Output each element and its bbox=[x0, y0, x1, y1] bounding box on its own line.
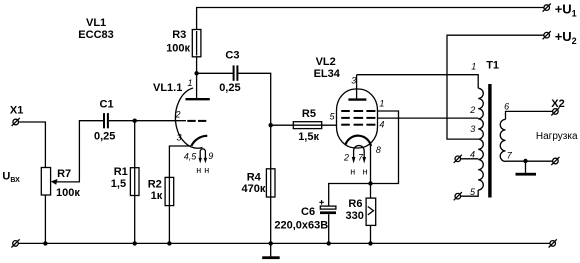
pentode VL2 grid g1 bbox=[341, 124, 375, 126]
label VL2 bbox=[314, 56, 341, 80]
wire anode VL1.1 bbox=[196, 73, 198, 98]
pin 2 VL1.1 bbox=[175, 110, 181, 120]
svg-text:R2: R2 bbox=[148, 178, 162, 190]
svg-text:330: 330 bbox=[346, 210, 364, 222]
node rail R1 bbox=[133, 241, 137, 245]
svg-text:R1: R1 bbox=[114, 166, 128, 178]
svg-text:1,5к: 1,5к bbox=[298, 131, 319, 143]
pentode VL2 anode bbox=[348, 75, 366, 100]
svg-text:T1: T1 bbox=[486, 60, 499, 72]
pentode VL2 envelope bbox=[337, 89, 378, 148]
wire C1 to grid VL1.1 bbox=[109, 120, 186, 122]
svg-text:6: 6 bbox=[504, 102, 509, 112]
label R2 bbox=[148, 178, 163, 202]
svg-text:3: 3 bbox=[177, 133, 182, 143]
heater n VL1.1 bbox=[196, 165, 209, 175]
svg-text:н: н bbox=[204, 165, 209, 175]
pin 4 VL2 bbox=[379, 120, 384, 130]
terminal bottom left bbox=[11, 239, 19, 247]
ground secondary bbox=[516, 161, 537, 176]
heater n VL2 bbox=[350, 166, 367, 176]
svg-text:R6: R6 bbox=[348, 198, 362, 210]
pin 3 VL1.1 bbox=[177, 133, 182, 143]
triode VL1.1 cathode bbox=[191, 136, 207, 146]
label C1 bbox=[94, 99, 115, 143]
terminal pin5 bbox=[454, 192, 462, 200]
pin 8 VL2 bbox=[376, 145, 381, 155]
svg-text:1: 1 bbox=[379, 98, 384, 108]
svg-text:н: н bbox=[196, 165, 201, 175]
resistor R2 bbox=[165, 146, 191, 243]
svg-text:н: н bbox=[350, 166, 355, 176]
wire bottom ground rail bbox=[18, 242, 550, 244]
resistor R3 bbox=[192, 30, 201, 74]
wire cathode node to C6 bbox=[329, 184, 371, 207]
svg-text:0,25: 0,25 bbox=[219, 82, 240, 94]
triode VL1.1 envelope bbox=[175, 88, 202, 148]
wire X1 to R7 bbox=[19, 122, 46, 168]
pentode VL2 heater bbox=[352, 146, 366, 164]
pin 1 T1 bbox=[471, 62, 476, 72]
pin 5 T1 bbox=[470, 187, 476, 197]
svg-text:R5: R5 bbox=[302, 108, 316, 120]
resistor R4 bbox=[266, 125, 275, 243]
label R4 bbox=[242, 171, 266, 195]
wire T1 pin5 bbox=[461, 190, 479, 196]
svg-text:Нагрузка: Нагрузка bbox=[536, 131, 578, 142]
node anode VL1.1 junction bbox=[194, 71, 198, 75]
svg-text:R3: R3 bbox=[172, 29, 186, 41]
resistor R5 bbox=[271, 122, 337, 129]
svg-text:100к: 100к bbox=[56, 187, 80, 199]
wire T1 tap4 bbox=[461, 158, 479, 160]
svg-text:VL1.1: VL1.1 bbox=[153, 82, 182, 94]
svg-text:0,25: 0,25 bbox=[94, 131, 115, 143]
svg-text:4,5: 4,5 bbox=[184, 151, 198, 161]
svg-text:3: 3 bbox=[351, 76, 356, 86]
wire anode VL2 to T1 pin1 bbox=[357, 75, 479, 89]
label R1 bbox=[111, 166, 128, 190]
node rail C6 bbox=[327, 241, 331, 245]
pin 3 VL2 bbox=[351, 76, 356, 86]
label X2 bbox=[551, 98, 564, 110]
label R3 bbox=[166, 29, 190, 55]
svg-text:1,5: 1,5 bbox=[111, 178, 126, 190]
svg-text:470к: 470к bbox=[242, 183, 266, 195]
capacitor C1 bbox=[104, 113, 108, 128]
svg-text:X1: X1 bbox=[10, 105, 23, 117]
wire +U2 feed to tap 3 bbox=[447, 35, 544, 139]
pentode VL2 grid g3 bbox=[341, 110, 375, 112]
label R5 bbox=[298, 108, 319, 143]
terminal tap4 bbox=[454, 155, 462, 163]
resistor R1 bbox=[130, 121, 139, 244]
svg-text:220,0х63В: 220,0х63В bbox=[274, 219, 328, 231]
node B bbox=[269, 123, 273, 127]
terminal +U1 bbox=[543, 4, 551, 12]
pin 7 T1 bbox=[507, 151, 513, 161]
svg-text:R4: R4 bbox=[247, 171, 262, 183]
pin 9 VL1.1 bbox=[208, 151, 213, 161]
node rail R2 bbox=[167, 241, 171, 245]
svg-text:2: 2 bbox=[175, 110, 181, 120]
triode VL1.1 heater bbox=[199, 149, 208, 164]
potentiometer R7 bbox=[41, 168, 57, 244]
pin 4 T1 bbox=[470, 150, 475, 160]
svg-text:2: 2 bbox=[469, 105, 475, 115]
svg-text:VL2: VL2 bbox=[316, 56, 336, 68]
pentode VL2 grid g2 bbox=[341, 117, 375, 119]
svg-text:8: 8 bbox=[376, 145, 381, 155]
pin 1 VL2 bbox=[379, 98, 384, 108]
pin 5 VL2 bbox=[330, 112, 336, 122]
label Uвх bbox=[2, 171, 20, 185]
node secondary ground bbox=[523, 159, 527, 163]
pin 3 T1 bbox=[470, 124, 475, 134]
svg-text:4: 4 bbox=[470, 150, 475, 160]
resistor R6 bbox=[366, 198, 376, 225]
svg-text:X2: X2 bbox=[551, 98, 564, 110]
svg-text:EL34: EL34 bbox=[314, 68, 341, 80]
terminal load bbox=[551, 157, 559, 165]
label +U1 bbox=[555, 1, 577, 18]
pin 4,5 VL1.1 bbox=[184, 151, 198, 161]
node rail R4 bbox=[269, 241, 273, 245]
wire C3 to node B bbox=[238, 73, 271, 125]
pin 1 VL1.1 bbox=[188, 78, 193, 88]
label T1 bbox=[486, 60, 499, 72]
node R1 top bbox=[133, 119, 137, 123]
terminal +U2 bbox=[543, 31, 551, 39]
wire g2 pin4 to T1 tap2 bbox=[378, 117, 479, 119]
svg-text:VL1: VL1 bbox=[86, 17, 106, 29]
terminal X2 bbox=[551, 107, 559, 115]
svg-text:1: 1 bbox=[188, 78, 193, 88]
label R6 bbox=[346, 198, 364, 222]
svg-text:1: 1 bbox=[471, 62, 476, 72]
node cathode VL2 bbox=[368, 181, 372, 185]
terminal X1 bbox=[12, 118, 20, 126]
capacitor C6 bbox=[319, 200, 336, 243]
svg-text:2: 2 bbox=[343, 152, 349, 162]
label VL1 bbox=[78, 17, 113, 41]
wire T1 pin7 to load bbox=[506, 160, 553, 162]
wire cathode VL2 bbox=[370, 146, 372, 243]
svg-text:ECC83: ECC83 bbox=[78, 29, 113, 41]
svg-text:C1: C1 bbox=[100, 99, 114, 111]
label +U2 bbox=[555, 29, 577, 46]
capacitor C3 bbox=[197, 65, 238, 80]
node rail R6 bbox=[368, 241, 372, 245]
label C3 bbox=[219, 50, 240, 94]
svg-text:C3: C3 bbox=[225, 50, 239, 62]
wire R7 wiper to C1 bbox=[54, 121, 103, 182]
pin 2 VL2 bbox=[343, 152, 349, 162]
triode VL1.1 grid bbox=[187, 120, 206, 122]
svg-text:1к: 1к bbox=[151, 190, 163, 202]
svg-text:4: 4 bbox=[379, 120, 384, 130]
label VL1.1 bbox=[153, 82, 182, 94]
pin 2 T1 bbox=[469, 105, 475, 115]
transformer T1 core bbox=[488, 84, 491, 198]
svg-text:C6: C6 bbox=[301, 206, 315, 218]
terminal bottom right bbox=[549, 239, 557, 247]
svg-text:9: 9 bbox=[208, 151, 213, 161]
wire T1 pin6 to X2 bbox=[506, 111, 553, 119]
svg-text:100к: 100к bbox=[166, 43, 190, 55]
pentode VL2 cathode bbox=[346, 136, 372, 146]
svg-text:3: 3 bbox=[470, 124, 475, 134]
label R7 bbox=[56, 168, 80, 199]
pin 7 VL2 bbox=[358, 152, 364, 162]
node rail R7 bbox=[43, 241, 47, 245]
pin 6 T1 bbox=[504, 102, 509, 112]
wire g3 pin1 to cathode node bbox=[371, 111, 399, 184]
label X1 bbox=[10, 105, 23, 117]
wire top +U1 rail bbox=[197, 8, 544, 30]
triode VL1.1 anode bbox=[186, 98, 210, 100]
transformer T1 primary winding bbox=[478, 88, 483, 190]
label Нагрузка bbox=[536, 131, 578, 142]
ground at R4 bbox=[262, 243, 280, 260]
transformer T1 secondary winding bbox=[500, 119, 505, 161]
svg-text:R7: R7 bbox=[57, 168, 71, 180]
label C6 bbox=[274, 206, 328, 231]
svg-text:н: н bbox=[363, 166, 368, 176]
